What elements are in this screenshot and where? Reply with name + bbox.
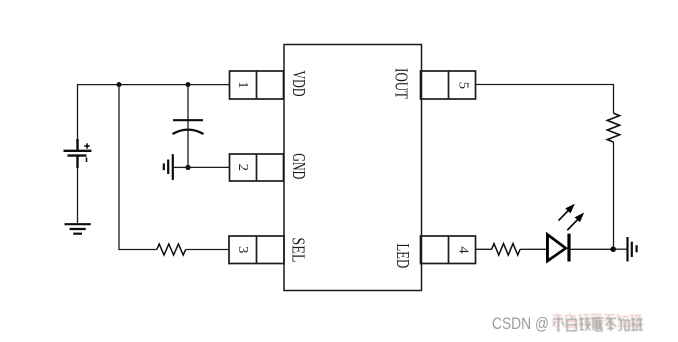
ground (below battery) (65, 224, 91, 234)
pin number 2 (235, 164, 250, 171)
svg-text:5: 5 (456, 82, 471, 89)
wire battery to ground (77, 168, 79, 224)
wire top rail VDD (78, 85, 230, 140)
svg-text:GND: GND (288, 153, 307, 179)
wire SEL branch vertical (119, 85, 157, 250)
node D (LED/right rail junction) (610, 246, 616, 252)
wire R2 down to node D (613, 142, 615, 249)
pin number 3 (235, 246, 250, 253)
svg-text:IOUT: IOUT (391, 68, 410, 99)
pin number 4 (456, 246, 471, 253)
pin label SEL (288, 237, 307, 262)
svg-text:VDD: VDD (288, 71, 307, 97)
node C (capacitor/GND junction) (185, 165, 190, 170)
wire IOUT to right rail (476, 85, 614, 114)
wire capacitor to GND node (187, 121, 189, 167)
ground (left of capacitor, sideways) (164, 154, 173, 180)
wire R3 to LED anode (520, 248, 547, 250)
wire R1 to pin 3 (186, 249, 229, 251)
svg-text:SEL: SEL (288, 237, 307, 262)
pin 3 box (229, 236, 284, 264)
pin number 1 (235, 81, 250, 88)
svg-text:4: 4 (456, 246, 471, 253)
svg-text:CSDN @: CSDN @ (492, 315, 549, 333)
svg-text:1: 1 (235, 81, 250, 88)
pin 4 box (421, 236, 476, 264)
pin 2 box (230, 154, 284, 181)
op-amp U1 (main IC body) (284, 45, 422, 291)
node A (junction on VDD rail, SEL branch) (117, 82, 122, 87)
capacitor C1 (173, 120, 204, 134)
LED arrow 1 (559, 204, 575, 221)
svg-text:3: 3 (235, 246, 250, 253)
svg-text:2: 2 (235, 164, 250, 171)
pin label VDD (288, 71, 307, 97)
svg-text:LED: LED (393, 243, 412, 268)
resistor R2 (IOUT load, vertical) (607, 113, 619, 142)
wire LED cathode to node D (569, 248, 613, 250)
node B (junction on VDD rail, capacitor branch) (186, 82, 191, 87)
wire capacitor branch vertical (187, 85, 189, 120)
wire pin 4 to R3 (476, 248, 492, 250)
LED D1 (547, 234, 569, 262)
pin label IOUT (391, 68, 410, 99)
wire node C to side ground (173, 166, 188, 168)
battery BT1 (64, 139, 92, 168)
pin 5 box (421, 71, 476, 99)
ground (right, sideways) (628, 237, 637, 262)
wire node D to right ground (613, 248, 627, 250)
wire node C to pin 2 (188, 166, 230, 168)
pin number 5 (456, 82, 471, 89)
resistor R1 (SEL series) (157, 244, 186, 255)
resistor R3 (LED series) (492, 244, 520, 255)
pin label GND (288, 153, 307, 179)
pin 1 box (230, 71, 284, 99)
watermark CSDN (492, 313, 643, 333)
LED arrow 2 (567, 213, 584, 231)
pin label LED (393, 243, 412, 268)
